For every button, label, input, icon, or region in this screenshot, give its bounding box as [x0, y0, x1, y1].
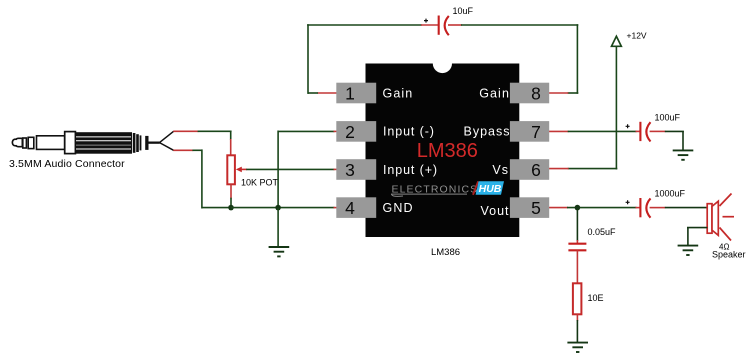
- svg-text:8: 8: [531, 84, 541, 104]
- svg-text:Speaker: Speaker: [712, 250, 746, 260]
- wire jack tip to pot top: [173, 131, 231, 155]
- pin label Gain left: [383, 86, 414, 100]
- pin 5: [510, 197, 549, 218]
- wire pin1 to top loop green: [307, 24, 422, 94]
- speaker LS1: [707, 194, 734, 241]
- svg-text:4: 4: [345, 198, 355, 218]
- wire pin7 to cap C2 green: [568, 130, 637, 132]
- svg-text:10K POT: 10K POT: [241, 177, 279, 187]
- pin 3: [336, 159, 376, 180]
- label 10E: [588, 293, 604, 303]
- ground G4: [567, 343, 588, 352]
- pin 8: [510, 83, 549, 104]
- wire cap C3 right lead red: [650, 207, 666, 209]
- ground G2: [673, 150, 694, 159]
- wire zobel vertical green: [576, 208, 578, 241]
- pin label Vout: [480, 204, 509, 218]
- svg-text:6: 6: [531, 160, 541, 180]
- pin label Gain right: [479, 86, 510, 100]
- pin label Input (-): [383, 125, 435, 139]
- wire pot bottom to gnd rail: [230, 184, 232, 207]
- svg-text:GND: GND: [383, 201, 414, 215]
- label Speaker: [712, 250, 746, 260]
- wire pin7 stub red: [549, 130, 569, 132]
- resistor R1 10E: [573, 283, 582, 314]
- pin 4: [336, 197, 376, 218]
- wire cap C2 to ground green: [665, 131, 684, 150]
- junction node pot bottom: [228, 205, 234, 211]
- svg-text:3: 3: [345, 160, 355, 180]
- plus mark C3: [626, 200, 630, 204]
- pot wiper arrow: [236, 167, 247, 173]
- wire pin5 to cap C3 green: [567, 207, 637, 209]
- wire wiper to pin3 green: [246, 168, 334, 170]
- capacitor C3 1000uF polarized: [640, 198, 650, 218]
- ground G3: [678, 246, 699, 255]
- label 10uF: [453, 6, 474, 16]
- capacitor C2 100uF polarized: [640, 122, 650, 142]
- label +12V: [627, 31, 647, 41]
- svg-text:LM386: LM386: [417, 140, 478, 162]
- label 0.05uF: [588, 227, 617, 237]
- label LM386 bottom: [431, 247, 460, 258]
- svg-text:Gain: Gain: [479, 86, 510, 100]
- wire resistor to ground: [576, 314, 578, 342]
- svg-text:7: 7: [531, 122, 541, 142]
- svg-text:Input (+): Input (+): [383, 163, 438, 177]
- svg-text:Vout: Vout: [480, 204, 509, 218]
- wire gnd rail to pin4: [231, 207, 337, 209]
- svg-text:1: 1: [345, 84, 355, 104]
- junction node gnd rail: [275, 205, 281, 211]
- wire pin5 stub red: [549, 207, 568, 209]
- svg-text:Input (-): Input (-): [383, 125, 435, 139]
- svg-text:10E: 10E: [588, 293, 604, 303]
- svg-text:3.5MM Audio Connector: 3.5MM Audio Connector: [9, 158, 125, 170]
- label 4 ohm: [719, 243, 729, 252]
- capacitor C1 10uF polarized: [439, 16, 449, 36]
- junction node Vout: [575, 205, 581, 211]
- wire pin2 to gnd rail vertical: [278, 131, 337, 208]
- wire pin8 stub red: [549, 92, 568, 94]
- pin label Vs: [492, 163, 509, 177]
- pin label Input (+): [383, 163, 438, 177]
- svg-text:5: 5: [531, 198, 541, 218]
- wire pin3 stub red: [334, 168, 337, 170]
- pin 2: [336, 121, 376, 142]
- wire gnd rail to ground G1: [277, 208, 279, 247]
- wire pin6 stub red: [549, 168, 569, 170]
- watermark ELECTRONICS HUB: [391, 181, 504, 196]
- wire pin1 stub red: [318, 92, 337, 94]
- wire cap C4 top lead red: [576, 240, 578, 244]
- label 10K POT: [241, 177, 279, 187]
- svg-text:10uF: 10uF: [453, 6, 474, 16]
- svg-text:LM386: LM386: [431, 247, 460, 258]
- wire cap C1 left lead red: [421, 24, 438, 26]
- ground G1: [269, 247, 290, 256]
- svg-text:+12V: +12V: [627, 31, 647, 41]
- svg-text:0.05uF: 0.05uF: [588, 227, 617, 237]
- wire cap C2 left lead red: [636, 130, 641, 132]
- label 3.5MM Audio Connector: [9, 158, 125, 170]
- wire top loop to pin8 green: [461, 24, 578, 94]
- potentiometer VR1 10K: [227, 155, 235, 184]
- capacitor C4 0.05uF: [568, 244, 586, 251]
- wire speaker bottom to ground: [687, 228, 707, 246]
- wire jack sleeve to gnd rail: [173, 149, 231, 208]
- wire cap C3 left lead red: [636, 207, 641, 209]
- label LM386 red: [417, 140, 478, 162]
- label 1000uF: [655, 189, 686, 199]
- svg-text:ELECTRONICS: ELECTRONICS: [392, 183, 479, 195]
- plus mark C2: [626, 124, 630, 128]
- label 100uF: [655, 113, 681, 123]
- pin 1: [336, 83, 376, 104]
- wire +12V to pin6 green: [568, 168, 618, 170]
- svg-text:Bypass: Bypass: [464, 125, 511, 139]
- wire cap C1 right lead red: [448, 24, 462, 26]
- pin label GND: [383, 201, 414, 215]
- svg-text:HUB: HUB: [479, 183, 502, 195]
- wire cap C4 to resistor red: [576, 250, 578, 283]
- wire cap C2 right lead red: [650, 130, 666, 132]
- svg-text:Gain: Gain: [383, 86, 414, 100]
- svg-text:1000uF: 1000uF: [655, 189, 686, 199]
- pin 6: [510, 159, 549, 180]
- power +12V arrow: [612, 36, 622, 169]
- svg-text:2: 2: [345, 122, 355, 142]
- svg-text:Vs: Vs: [492, 163, 509, 177]
- wire cap C3 to speaker green: [665, 207, 708, 209]
- pin 7: [510, 121, 549, 142]
- connector J1 3.5mm jack: [12, 131, 173, 153]
- svg-text:100uF: 100uF: [655, 113, 681, 123]
- plus mark C1: [424, 19, 428, 23]
- pin label Bypass: [464, 125, 511, 139]
- op-amp U1 LM386 body: [366, 64, 520, 238]
